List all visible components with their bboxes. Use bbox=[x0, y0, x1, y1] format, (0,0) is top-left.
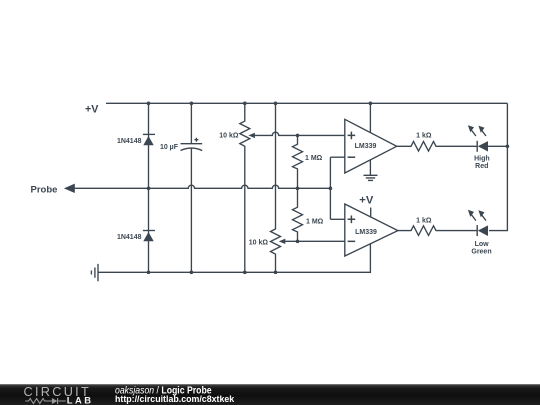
LED D3 arrowheads bbox=[468, 125, 485, 133]
wire right vertical to bottom LED bbox=[489, 103, 507, 230]
svg-text:1 MΩ: 1 MΩ bbox=[305, 155, 323, 162]
junction dot bbox=[296, 240, 300, 244]
svg-text:+V: +V bbox=[359, 194, 374, 206]
ground symbol left earth bbox=[91, 264, 98, 281]
svg-text:Low: Low bbox=[475, 241, 490, 248]
node +V top rail wire bbox=[106, 102, 507, 104]
svg-text:1 kΩ: 1 kΩ bbox=[416, 132, 432, 139]
potentiometer R4 10k body bbox=[271, 103, 281, 272]
capacitor C1 bottom plate bbox=[181, 148, 203, 150]
junction dot bbox=[190, 102, 194, 106]
wire C1 column top bbox=[190, 103, 192, 143]
svg-text:LM339: LM339 bbox=[355, 229, 377, 236]
wire U1 ground pin bbox=[369, 160, 371, 176]
junction dot bbox=[243, 102, 247, 106]
resistor R5 1k body bbox=[397, 142, 478, 152]
wire U1 power pin bbox=[369, 103, 371, 132]
junction dot bbox=[147, 102, 151, 106]
svg-text:High: High bbox=[474, 155, 490, 162]
svg-text:+V: +V bbox=[85, 103, 99, 115]
svg-text:1 MΩ: 1 MΩ bbox=[306, 218, 324, 225]
junction dot bbox=[506, 145, 510, 149]
LED D3 triangle bbox=[478, 141, 488, 151]
potentiometer R3 10k body bbox=[240, 103, 250, 272]
pot R4 wiper arrowhead bbox=[279, 239, 286, 244]
ground symbol U1 bbox=[364, 175, 378, 180]
resistor R6 1k body bbox=[398, 226, 477, 236]
svg-text:LM339: LM339 bbox=[355, 143, 377, 150]
logo diode triangle bbox=[52, 398, 58, 404]
svg-text:1N4148: 1N4148 bbox=[117, 234, 142, 241]
wire pot R4 wiper to U2 - input bbox=[285, 240, 345, 242]
op-amp U2 minus symbol bbox=[348, 240, 356, 242]
logo wire resistor diode glyph bbox=[25, 398, 66, 404]
LED D3 cathode bar bbox=[477, 141, 478, 152]
junction dot bbox=[369, 102, 373, 106]
LED D4 light arrows bbox=[470, 213, 486, 220]
wire U2 power pin bbox=[370, 208, 372, 218]
wire pot R3 wiper to U1 + input bbox=[255, 132, 345, 135]
svg-text:10 kΩ: 10 kΩ bbox=[249, 240, 269, 247]
junction dot bbox=[243, 271, 247, 275]
junction dot bbox=[296, 187, 300, 191]
capacitor C1 plus sign bbox=[194, 138, 198, 142]
capacitor C1 top plate bbox=[181, 143, 203, 145]
probe arrow head bbox=[64, 184, 75, 193]
wire C1 column bottom bbox=[190, 149, 192, 273]
footer bar bbox=[0, 384, 540, 405]
diode D1 triangle bbox=[143, 136, 153, 145]
op-amp U2 LM339 triangle bbox=[345, 204, 398, 256]
diode D1 cathode bar bbox=[143, 133, 155, 135]
resistor R1 1M body bbox=[293, 135, 303, 188]
op-amp U1 plus symbol bbox=[348, 132, 356, 140]
diode D2 cathode bar bbox=[143, 230, 155, 232]
wire vertical probe to comparator inputs bbox=[329, 157, 331, 219]
wire D1 D2 column bbox=[148, 103, 150, 272]
svg-text:Green: Green bbox=[471, 248, 491, 255]
svg-text:Red: Red bbox=[475, 163, 488, 170]
junction dot bbox=[147, 271, 151, 275]
svg-text:Probe: Probe bbox=[31, 185, 58, 196]
LED D3 light arrows bbox=[470, 129, 486, 136]
junction dot bbox=[147, 187, 151, 191]
wire U1 - input bbox=[330, 156, 344, 158]
LED D4 cathode bar bbox=[477, 225, 478, 236]
wire probe line bbox=[74, 185, 330, 188]
junction dot bbox=[274, 102, 278, 106]
svg-text:1 kΩ: 1 kΩ bbox=[416, 217, 432, 224]
op-amp U1 LM339 triangle bbox=[345, 119, 397, 173]
svg-text:1N4148: 1N4148 bbox=[117, 138, 142, 145]
svg-text:10 kΩ: 10 kΩ bbox=[219, 133, 239, 140]
junction dot bbox=[274, 271, 278, 275]
junction dot bbox=[329, 187, 333, 191]
junction dot bbox=[296, 134, 300, 138]
ground rail wire to U2 V- pin bbox=[98, 244, 370, 273]
wire top LED to right rail bbox=[488, 145, 507, 147]
LED D4 arrowheads bbox=[468, 210, 485, 218]
LED D4 triangle bbox=[478, 225, 488, 236]
resistor R2 1M body bbox=[293, 188, 303, 241]
junction dot bbox=[190, 271, 194, 275]
pot R3 wiper arrowhead bbox=[248, 133, 255, 138]
diode D2 triangle bbox=[143, 232, 153, 241]
wire U2 + input bbox=[330, 218, 344, 220]
op-amp U2 plus symbol bbox=[348, 216, 356, 224]
op-amp U1 minus symbol bbox=[348, 156, 356, 158]
svg-text:10 µF: 10 µF bbox=[160, 144, 179, 151]
